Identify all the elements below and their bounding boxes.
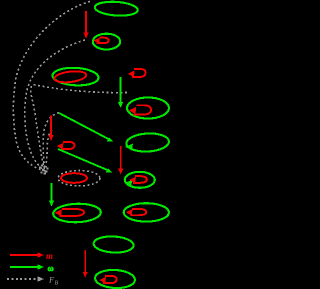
red arrow R5 (83, 250, 88, 278)
red loop L3 in E3 (134, 105, 152, 114)
red loop L6 in E6 (131, 209, 147, 215)
red arrow Rtop (83, 11, 88, 39)
red loop LM3 in M3 (60, 209, 85, 216)
dashed trajectory A (13, 2, 90, 171)
green arrow G1 (118, 77, 123, 108)
red loop L5 in E5 (133, 176, 147, 183)
convergence blob (39, 165, 49, 175)
legend dashed arrow (7, 276, 44, 281)
green ellipse E3 (127, 98, 169, 119)
legend green arrow (10, 264, 44, 269)
green ellipse E2 (93, 34, 120, 50)
legend red arrow (10, 252, 44, 257)
red vertical arrow R3 (48, 116, 53, 142)
dashed trajectory E (45, 130, 52, 173)
dashed ellipse M2 (58, 171, 100, 186)
red loop L8 in E8 (103, 276, 117, 283)
green ellipse M1 (52, 67, 99, 87)
dashed trajectory B (25, 40, 85, 171)
red arrow R2 (118, 146, 123, 175)
red loop R4 standalone (61, 142, 75, 149)
dashed trajectory D (43, 113, 59, 172)
green arrow G2 (49, 183, 54, 207)
green ellipse E6 (124, 203, 169, 221)
green ellipse E4 with direction arrow (126, 132, 169, 152)
green diagonal arrow D1 (59, 113, 113, 142)
svg-text:ω: ω (48, 263, 54, 273)
red loop L2 in E2 (97, 38, 109, 44)
green diagonal arrow D2 (58, 149, 112, 173)
svg-text:m: m (46, 251, 53, 261)
red loop R1 standalone (132, 69, 146, 77)
red ellipse in M2 (61, 173, 87, 183)
dashed trajectory C (31, 85, 127, 172)
green ellipse M3 (53, 203, 101, 223)
green ellipse E8 (95, 269, 136, 289)
svg-text:B: B (55, 281, 59, 287)
green ellipse E7 (93, 235, 134, 253)
green ellipse E1 (94, 0, 138, 17)
red ellipse in M1 (54, 70, 87, 84)
green ellipse E5 with direction arrow (125, 172, 155, 188)
